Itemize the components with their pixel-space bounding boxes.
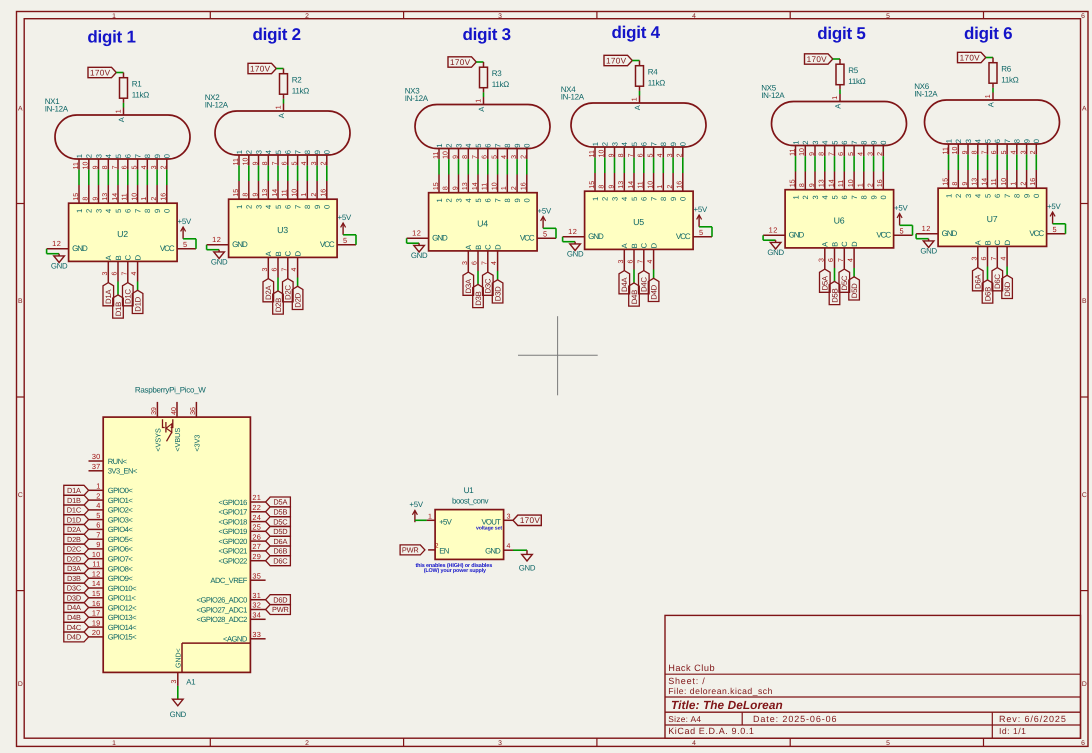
svg-text:9: 9 [608,153,615,157]
svg-text:7: 7 [637,260,644,264]
hierarchical label D2B [273,291,284,314]
svg-text:C: C [640,242,649,248]
pin 26 GPIO20 [219,532,266,546]
svg-text:digit 4: digit 4 [612,23,661,42]
wire [238,166,240,181]
svg-text:2: 2 [245,205,254,209]
svg-text:2: 2 [321,161,328,165]
svg-text:VCC: VCC [1029,229,1044,238]
wire [458,159,460,174]
svg-text:4: 4 [501,155,508,159]
resistor R4 11k [636,61,666,91]
wire [992,88,994,93]
svg-text:GPIO10<: GPIO10< [108,584,137,593]
svg-text:170V: 170V [520,516,541,525]
svg-text:3: 3 [454,198,463,202]
svg-text:4: 4 [620,197,629,201]
svg-text:3: 3 [102,272,109,276]
nixie tube NX3 IN-12A [405,87,550,160]
svg-text:B: B [983,240,992,245]
svg-text:<GPIO19: <GPIO19 [219,527,248,536]
svg-text:Date: 2025-06-06: Date: 2025-06-06 [753,714,837,724]
svg-text:Rev: 6/6/2025: Rev: 6/6/2025 [999,714,1067,724]
svg-text:11: 11 [92,560,100,569]
svg-text:8: 8 [799,183,806,187]
svg-text:D2C: D2C [284,285,293,300]
note: digit 5 title [817,24,865,43]
svg-text:digit 3: digit 3 [463,25,511,44]
wire [594,158,596,173]
wire [156,170,158,185]
svg-text:7: 7 [96,530,100,539]
svg-text:6: 6 [993,139,1002,143]
wire [977,155,979,170]
svg-text:2: 2 [85,209,94,213]
svg-text:5: 5 [886,740,890,747]
resistor R6 11k [989,58,1019,88]
svg-text:170V: 170V [807,55,828,64]
wire [833,58,840,60]
wire [107,170,109,185]
svg-text:R3: R3 [492,69,502,78]
svg-text:9: 9 [92,197,99,201]
svg-text:9: 9 [513,143,522,147]
nixie tube NX5 IN-12A [761,84,906,157]
svg-text:34: 34 [252,611,261,620]
pin 10 GPIO7 [89,550,134,564]
svg-text:16: 16 [877,179,884,187]
svg-text:D3C: D3C [67,584,82,593]
svg-text:0: 0 [879,195,888,199]
pin 14 GPIO10 [89,579,138,593]
svg-text:C: C [1082,492,1087,499]
svg-text:D2B: D2B [67,535,81,544]
svg-text:5: 5 [630,142,639,146]
svg-text:R2: R2 [292,75,302,84]
svg-text:0: 0 [323,150,332,154]
svg-text:31: 31 [252,591,261,600]
wire [415,519,427,521]
pin 19 GPIO14 [89,618,138,632]
wire [343,235,356,245]
svg-text:17: 17 [92,609,101,618]
svg-text:GND: GND [789,231,805,240]
svg-text:File: delorean.kicad_sch: File: delorean.kicad_sch [668,686,773,696]
svg-text:ADC_VREF: ADC_VREF [210,576,247,585]
svg-text:11: 11 [482,183,489,190]
svg-text:29: 29 [252,552,261,561]
svg-text:1: 1 [141,197,148,201]
wire [834,156,836,171]
svg-text:5: 5 [474,143,483,147]
svg-text:R1: R1 [132,79,142,88]
wire [117,170,119,185]
svg-text:2: 2 [801,140,810,144]
svg-text:6: 6 [828,258,835,262]
svg-text:3: 3 [511,155,518,159]
svg-text:2: 2 [867,183,874,187]
svg-text:3: 3 [462,261,469,265]
svg-text:3: 3 [171,680,178,684]
wire [47,249,60,254]
wire [248,166,250,181]
svg-text:8: 8 [443,186,450,190]
wire [483,92,485,97]
svg-text:1: 1 [476,99,483,103]
svg-text:3: 3 [971,257,978,261]
svg-text:8: 8 [102,165,109,169]
svg-text:3: 3 [498,740,502,747]
wire [987,267,989,280]
note: voltage set [476,526,502,532]
svg-text:D1C: D1C [67,506,82,515]
svg-text:7: 7 [828,152,835,156]
svg-text:1: 1 [75,209,84,213]
svg-text:digit 6: digit 6 [964,24,1012,43]
svg-text:5: 5 [96,511,100,520]
svg-text:GND: GND [942,229,958,238]
svg-text:4: 4 [657,153,664,157]
svg-text:7: 7 [838,258,845,262]
hierarchical label D2A [64,524,89,534]
svg-text:7: 7 [294,150,303,154]
svg-text:D6D: D6D [273,595,287,604]
svg-text:D5B: D5B [273,508,287,517]
wire [98,170,100,185]
svg-text:+5V: +5V [178,217,192,226]
svg-text:11: 11 [233,158,240,165]
hierarchical label D3A [64,564,89,574]
svg-text:15: 15 [233,189,240,197]
svg-text:5: 5 [630,197,639,201]
wire [882,156,884,171]
svg-text:35: 35 [252,571,261,580]
note: digit 6 title [964,24,1012,43]
svg-text:A: A [1082,106,1087,113]
svg-text:<GPIO22: <GPIO22 [219,557,248,566]
svg-text:GPIO1<: GPIO1< [108,496,134,505]
svg-text:2: 2 [954,194,963,198]
ground symbol (Pico) [170,699,187,719]
svg-text:GPIO13<: GPIO13< [108,613,137,622]
editor crosshair marker [518,316,598,395]
wire [277,166,279,181]
svg-text:15: 15 [942,178,949,186]
svg-text:13: 13 [972,178,979,186]
svg-text:3V3_EN<: 3V3_EN< [108,467,138,476]
hierarchical label D2C [64,544,89,554]
hierarchical label D6D [266,595,291,605]
svg-text:14: 14 [272,189,279,197]
svg-text:3: 3 [507,513,511,520]
svg-text:1: 1 [112,13,116,20]
svg-text:U5: U5 [633,217,644,227]
svg-text:4: 4 [291,268,298,272]
svg-text:170V: 170V [606,56,627,65]
wire [633,270,635,283]
svg-text:D6B: D6B [983,287,992,301]
svg-text:6: 6 [272,268,279,272]
svg-text:2: 2 [601,197,610,201]
svg-text:5: 5 [131,165,138,169]
svg-text:4: 4 [821,140,830,144]
wire [839,89,841,94]
hierarchical label PWR [266,605,291,615]
svg-text:D4D: D4D [650,284,659,299]
note: digit 4 title [612,23,661,42]
svg-text:D6A: D6A [974,274,983,289]
svg-text:D1D: D1D [134,296,143,311]
wire [543,228,556,238]
svg-text:+5V: +5V [409,500,423,509]
svg-text:14: 14 [981,178,988,186]
pin 33 AGND [223,630,266,644]
svg-text:GND: GND [920,247,937,256]
svg-text:A: A [18,106,23,113]
svg-text:GPIO15<: GPIO15< [108,633,137,642]
svg-text:2: 2 [161,165,168,169]
svg-text:5: 5 [647,153,654,157]
svg-text:14: 14 [828,179,835,187]
svg-text:D4A: D4A [620,277,629,292]
svg-text:+5V: +5V [1047,202,1061,211]
svg-text:4: 4 [821,195,830,199]
svg-text:4: 4 [264,205,273,209]
svg-text:1: 1 [1011,182,1018,186]
hierarchical label D3D [492,280,503,303]
svg-text:RaspberryPi_Pico_W: RaspberryPi_Pico_W [135,385,206,394]
wire [824,156,826,171]
svg-text:4: 4 [491,261,498,265]
pin 7 GPIO5 [89,530,134,544]
svg-text:D5C: D5C [840,275,849,290]
svg-text:D6D: D6D [1003,281,1012,296]
svg-text:6: 6 [484,198,493,202]
svg-text:11: 11 [838,180,845,187]
wire [653,158,655,173]
svg-text:+5V: +5V [894,203,908,212]
svg-text:13: 13 [102,193,109,201]
power +5V (U1) [409,500,423,522]
svg-text:EN: EN [439,546,449,555]
svg-text:boost_conv: boost_conv [452,496,488,505]
svg-text:6: 6 [1081,740,1085,747]
svg-text:4: 4 [104,209,113,213]
svg-text:digit 2: digit 2 [253,25,301,44]
svg-text:<GPIO28_ADC2: <GPIO28_ADC2 [197,615,248,624]
svg-text:5: 5 [830,195,839,199]
wire [853,156,855,171]
svg-text:GPIO2<: GPIO2< [108,506,134,515]
hierarchical label D4D [64,632,89,642]
svg-text:5: 5 [114,154,123,158]
hierarchical label D4B [629,283,640,306]
wire [177,686,179,699]
svg-text:1: 1 [435,143,444,147]
hierarchical label D1D [64,515,89,525]
wire [497,271,499,280]
nixie tube NX4 IN-12A [561,85,706,158]
svg-text:B: B [830,242,839,247]
svg-text:10: 10 [848,179,855,187]
wire [516,159,518,174]
svg-text:(LOW) your power supply: (LOW) your power supply [424,568,486,574]
svg-text:1: 1 [985,94,992,98]
wire [513,549,527,551]
svg-text:16: 16 [1030,178,1037,186]
svg-text:6: 6 [628,260,635,264]
svg-text:9: 9 [252,161,259,165]
svg-text:D3A: D3A [67,564,81,573]
svg-text:D1A: D1A [67,486,81,495]
svg-text:D: D [18,681,23,688]
pin 25 GPIO19 [219,523,266,537]
svg-text:13: 13 [819,179,826,187]
wire [632,60,639,62]
svg-text:3: 3 [498,13,502,20]
svg-text:D3C: D3C [484,278,493,293]
wire [258,166,260,181]
wire [986,57,993,59]
svg-text:5: 5 [983,194,992,198]
svg-text:10: 10 [92,550,101,559]
svg-text:19: 19 [92,618,101,627]
svg-text:4: 4 [301,161,308,165]
svg-text:8: 8 [303,150,312,154]
svg-text:2: 2 [521,155,528,159]
svg-text:GND: GND [588,232,604,241]
pin 30 RUN [89,452,128,466]
svg-text:D6C: D6C [993,274,1002,289]
wire [672,158,674,173]
svg-text:12: 12 [212,235,221,244]
wire [987,155,989,170]
svg-text:5: 5 [886,13,890,20]
wire [183,239,196,249]
svg-text:1: 1 [791,195,800,199]
svg-text:B: B [1082,298,1087,305]
pin 16 GPIO12 [89,599,138,613]
svg-text:Hack Club: Hack Club [668,663,715,673]
global label 170V (digit 1) [88,67,116,77]
nixie tube NX1 IN-12A [45,97,190,170]
svg-text:D: D [1082,681,1087,688]
svg-text:9: 9 [153,154,162,158]
svg-text:D: D [294,250,303,256]
wire [137,282,139,291]
hierarchical label PWR [400,545,425,555]
svg-text:170V: 170V [90,68,111,77]
global label 170V (U1 output) [513,515,541,525]
resistor R2 11k [280,69,310,99]
svg-text:7: 7 [472,155,479,159]
hierarchical label D6C [992,268,1003,291]
hierarchical label D1B [64,495,89,505]
svg-text:D3A: D3A [464,278,473,293]
wire [1026,155,1028,170]
wire [497,159,499,174]
pin 11 GPIO8 [89,560,134,574]
svg-text:5: 5 [848,152,855,156]
svg-text:5: 5 [291,161,298,165]
wire [662,158,664,173]
svg-text:11: 11 [122,193,129,200]
svg-text:GPIO8<: GPIO8< [108,564,134,573]
svg-text:13: 13 [618,181,625,189]
pin 15 GPIO11 [89,589,137,603]
svg-text:D5D: D5D [273,527,287,536]
resistor R3 11k [480,62,510,92]
svg-text:20: 20 [92,628,101,637]
svg-text:R6: R6 [1001,64,1011,73]
svg-text:16: 16 [677,181,684,189]
wire [407,238,420,243]
svg-text:9: 9 [1023,194,1032,198]
svg-text:D2A: D2A [67,525,81,534]
svg-text:9: 9 [809,183,816,187]
svg-text:GPIO0<: GPIO0< [108,486,134,495]
svg-text:1: 1 [112,740,116,747]
ground symbol (U1) [526,550,528,554]
driver IC U5 [563,173,712,271]
svg-text:10: 10 [599,150,606,158]
hierarchical label D5D [849,277,860,300]
svg-text:11: 11 [942,147,949,154]
svg-text:U6: U6 [834,215,845,225]
svg-text:12: 12 [92,569,101,578]
pin 37 3V3_EN [89,462,138,476]
svg-text:16: 16 [161,193,168,201]
wire [873,156,875,171]
wire [526,159,528,174]
svg-text:3: 3 [811,140,820,144]
hierarchical label D1B [113,295,124,318]
svg-text:2: 2 [245,150,254,154]
svg-text:6: 6 [981,257,988,261]
wire [506,159,508,174]
svg-text:1: 1 [657,185,664,189]
svg-text:<VBUS: <VBUS [173,428,182,452]
svg-text:3: 3 [94,209,103,213]
svg-text:GND: GND [170,710,187,719]
hierarchical label D5B [829,281,840,304]
svg-text:9: 9 [870,140,879,144]
svg-text:GPIO6<: GPIO6< [108,545,134,554]
svg-text:C: C [124,254,133,260]
wire [633,158,635,173]
svg-text:24: 24 [252,513,261,522]
svg-text:RUN<: RUN< [108,457,128,466]
svg-text:11: 11 [638,181,645,188]
svg-text:3: 3 [454,143,463,147]
wire [1053,224,1066,234]
svg-text:2: 2 [801,195,810,199]
wire [297,166,299,181]
svg-text:7: 7 [134,209,143,213]
svg-text:0: 0 [163,154,172,158]
svg-text:+5V: +5V [538,206,552,215]
hierarchical label D6A [266,536,291,546]
svg-text:13: 13 [462,182,469,190]
svg-text:4: 4 [647,260,654,264]
svg-text:1: 1 [96,482,100,491]
ground symbol (digit 4) [574,242,576,244]
svg-text:16: 16 [92,599,101,608]
svg-text:2: 2 [445,198,454,202]
svg-text:6: 6 [472,261,479,265]
svg-text:0: 0 [1032,194,1041,198]
svg-text:14: 14 [472,182,479,190]
